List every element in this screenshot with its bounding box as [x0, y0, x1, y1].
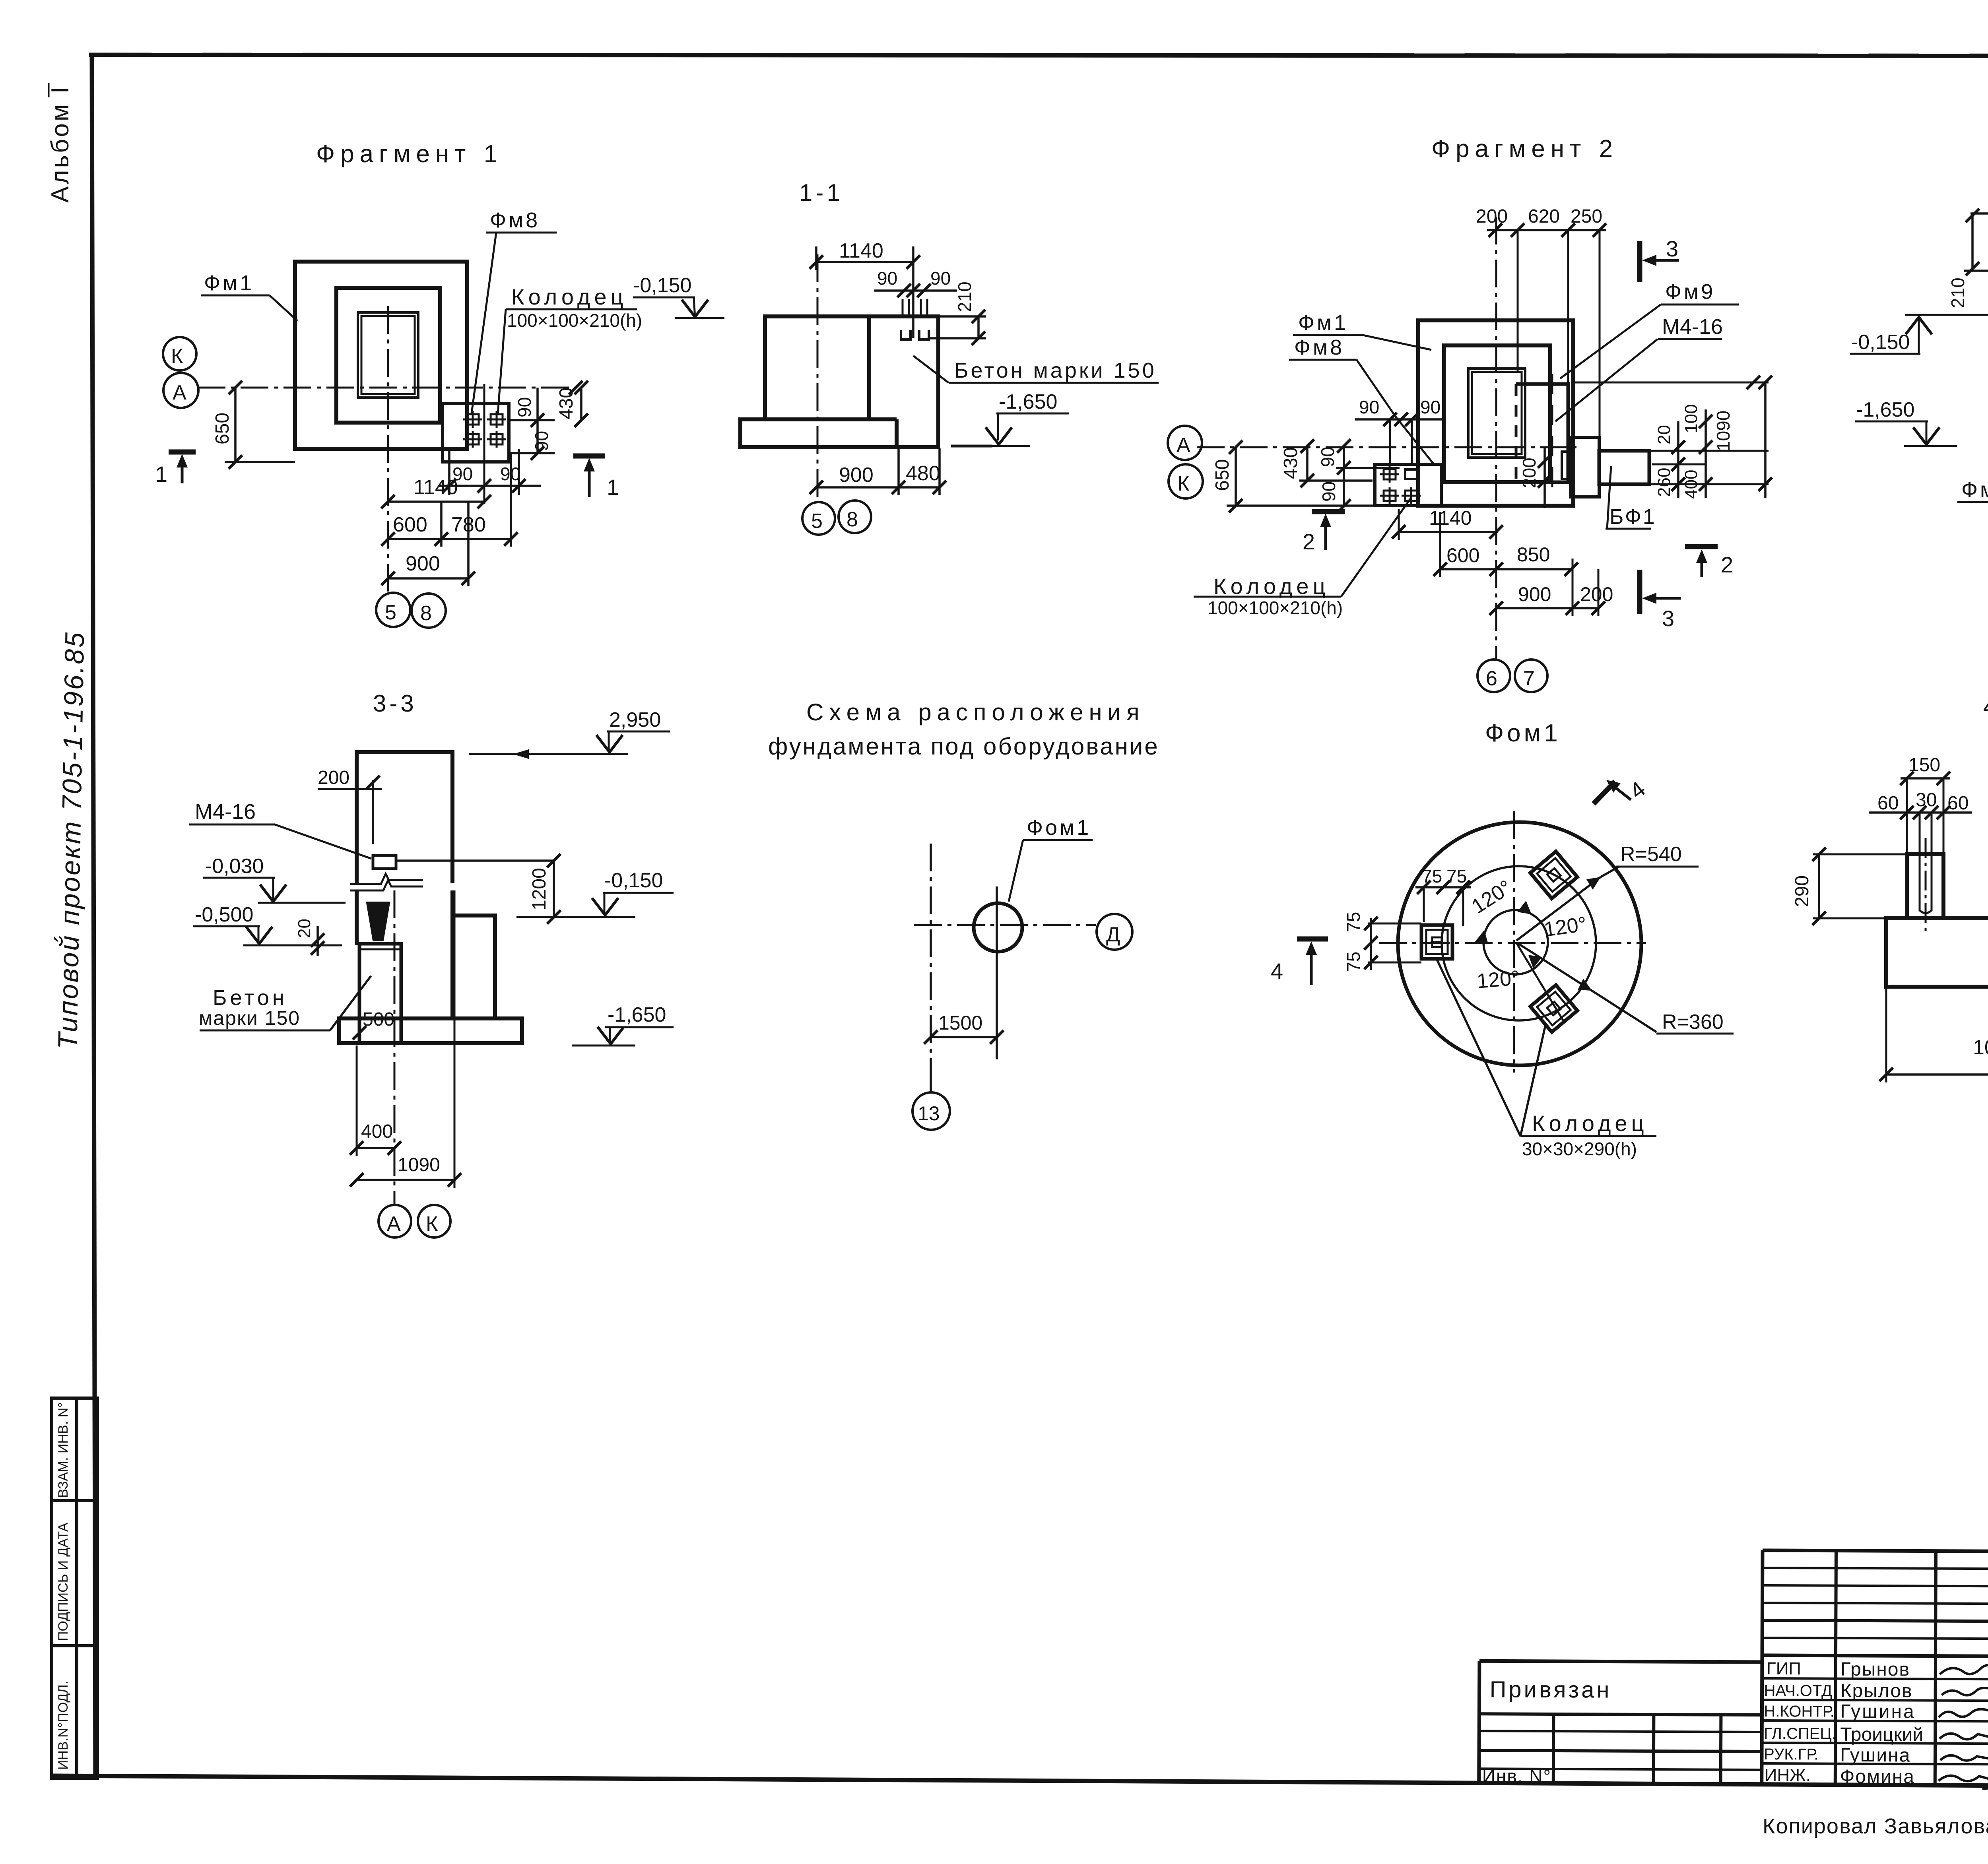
svg-text:100: 100: [1681, 404, 1701, 433]
dim 650 vertical: [234, 388, 237, 462]
scheme horizontal axis D: [914, 924, 1096, 926]
svg-text:БФ1: БФ1: [1609, 505, 1656, 529]
svg-text:90: 90: [1420, 397, 1441, 417]
svg-text:ГИП: ГИП: [1767, 1659, 1801, 1678]
concrete fill block: [359, 944, 401, 1043]
svg-text:900: 900: [839, 464, 874, 487]
svg-text:120°: 120°: [1476, 966, 1520, 993]
radius dash line to bottom pad: [1516, 943, 1563, 1021]
svg-text:Инв. N°: Инв. N°: [1482, 1765, 1551, 1786]
dim 600 850 (frag2): [1440, 568, 1571, 570]
small tab: [1562, 452, 1571, 479]
dim 400 (3-3): [357, 1147, 394, 1149]
svg-text:Д: Д: [1106, 923, 1120, 946]
svg-text:100×100×210(h): 100×100×210(h): [1208, 597, 1343, 618]
dim 100/400 vline: [1705, 409, 1707, 498]
svg-text:20: 20: [295, 919, 314, 938]
svg-text:Привязан: Привязан: [1490, 1676, 1612, 1703]
frame left border: [92, 53, 95, 1777]
svg-text:Н.КОНТР.: Н.КОНТР.: [1764, 1703, 1835, 1720]
svg-text:3-3: 3-3: [373, 690, 417, 717]
slot 1 lines: [1920, 854, 1932, 913]
svg-text:1: 1: [607, 475, 619, 500]
anchor funnel: [367, 903, 389, 940]
section mark 4 top (diagonal): [1594, 782, 1615, 804]
svg-text:К: К: [1177, 472, 1189, 495]
dim 200 internal: [1543, 447, 1546, 508]
dim 90 (frag2 upper): [1343, 446, 1345, 506]
anchor plate Fm8: [443, 403, 509, 462]
fragment 2 left: dim 90 90 above plate: [1355, 418, 1443, 421]
svg-text:Крылов: Крылов: [1840, 1680, 1913, 1702]
svg-text:90: 90: [531, 431, 552, 451]
dim 210 (2-2): [1971, 213, 1974, 271]
pier axis vertical: [817, 254, 819, 502]
svg-text:ВЗАМ. ИНВ. N°: ВЗАМ. ИНВ. N°: [56, 1402, 71, 1498]
M4-16 embedded plate: [373, 855, 396, 869]
svg-text:4-4: 4-4: [1983, 693, 1988, 720]
bolt axis vertical: [483, 384, 485, 504]
svg-text:850: 850: [1517, 543, 1550, 566]
svg-text:500: 500: [363, 1009, 394, 1030]
svg-text:1500: 1500: [938, 1012, 982, 1034]
extension line right tick: [1599, 230, 1601, 437]
leaders to pads: [1520, 1023, 1546, 1136]
svg-text:А: А: [1176, 434, 1190, 457]
scheme vertical line through foundation: [996, 886, 998, 1059]
bolt 1: [463, 411, 482, 428]
footing right edge: [895, 419, 899, 447]
axis circle 13: [912, 1092, 950, 1130]
svg-text:8: 8: [420, 602, 432, 625]
inner circle: [1442, 866, 1596, 1020]
radius line to top-right pad: [1516, 877, 1601, 941]
bolt axis 1: [1925, 838, 1927, 931]
horizontal axis row A: [198, 387, 576, 389]
bolt 4: [487, 431, 506, 448]
bolt 1: [1380, 466, 1399, 483]
signature table outline: [1762, 1550, 1988, 1788]
column below break: left edge: [355, 890, 359, 945]
svg-text:М4-16: М4-16: [195, 800, 256, 824]
svg-text:90: 90: [1318, 481, 1339, 502]
svg-text:5: 5: [811, 510, 823, 533]
svg-text:75: 75: [1446, 866, 1467, 886]
dim 600 / 780: [388, 538, 511, 540]
dim 90 90 (2-2): [1971, 212, 1988, 215]
foundation body outline: [740, 316, 938, 447]
footing top edge: [765, 417, 897, 421]
axis circle A: [163, 373, 198, 408]
svg-text:8: 8: [846, 508, 858, 531]
section mark 1 left: [169, 450, 196, 455]
svg-text:200: 200: [1580, 583, 1613, 605]
svg-text:290: 290: [1792, 875, 1813, 907]
Fm9 outline rectangle: [1516, 384, 1568, 482]
svg-text:РУК.ГР.: РУК.ГР.: [1764, 1746, 1819, 1763]
vertical axis of pier: [387, 306, 389, 596]
svg-text:430: 430: [556, 388, 577, 419]
svg-text:650: 650: [212, 413, 233, 444]
section mark 4 left-bottom: [1297, 937, 1328, 942]
dim 1200: [553, 861, 555, 917]
svg-text:Бетон: Бетон: [213, 986, 287, 1010]
dim 20/260 vline: [1677, 421, 1679, 498]
privyazan verticals: [1552, 1714, 1555, 1784]
section mark 2 bottom right: [1685, 544, 1718, 549]
dim 650 (frag2): [1235, 447, 1237, 506]
svg-text:Схема расположения: Схема расположения: [806, 699, 1145, 725]
svg-text:90: 90: [514, 397, 535, 417]
svg-text:Фм8: Фм8: [1961, 478, 1988, 502]
angle circle 120: [1483, 910, 1548, 974]
svg-text:60: 60: [1947, 793, 1969, 814]
axis circle 6: [1477, 659, 1510, 692]
svg-text:7: 7: [1523, 667, 1535, 690]
bolt 3: [1380, 487, 1399, 504]
svg-text:Фомина: Фомина: [1840, 1766, 1915, 1788]
signature rows: [1762, 1678, 1988, 1680]
horizontal centerline: [1379, 942, 1646, 944]
dim 430 (frag2): [1306, 446, 1309, 481]
privyazan big cell bottom: [1479, 1714, 1762, 1715]
svg-text:1: 1: [155, 462, 167, 487]
svg-text:260: 260: [1654, 468, 1674, 497]
svg-text:2,950: 2,950: [609, 708, 661, 731]
svg-text:60: 60: [1877, 793, 1899, 814]
svg-text:марки 150: марки 150: [199, 1007, 300, 1029]
bolt 4: [1402, 487, 1421, 504]
svg-text:75: 75: [1422, 866, 1442, 886]
anchor slot 1: [901, 299, 911, 339]
svg-text:1140: 1140: [1429, 507, 1472, 529]
top dims 200 620 250: [1487, 229, 1606, 231]
svg-text:Гушина: Гушина: [1840, 1701, 1916, 1722]
section mark 1 right: [573, 454, 605, 459]
svg-text:фундамента под оборудование: фундамента под оборудование: [768, 733, 1159, 760]
dim 90 vertical right upper: [536, 388, 539, 453]
svg-text:900: 900: [1518, 583, 1551, 605]
svg-text:30×30×290(h): 30×30×290(h): [1522, 1139, 1637, 1159]
left pad outer: [1421, 925, 1452, 959]
table verticals: [1835, 1551, 1836, 1785]
section mark 3 top: [1637, 241, 1642, 282]
svg-text:НАЧ.ОТД: НАЧ.ОТД: [1764, 1682, 1833, 1700]
svg-text:200: 200: [318, 767, 349, 788]
svg-text:Фрагмент 2: Фрагмент 2: [1431, 135, 1618, 163]
svg-text:Фом1: Фом1: [1485, 720, 1561, 747]
pit double rectangle: [1468, 369, 1525, 458]
svg-text:Троицкий: Троицкий: [1840, 1724, 1923, 1746]
bolt axis vertical: [394, 890, 396, 1205]
svg-text:Фм8: Фм8: [1294, 336, 1344, 359]
svg-text:-0,030: -0,030: [205, 855, 264, 878]
svg-text:90: 90: [930, 268, 951, 289]
svg-text:А: А: [173, 381, 186, 404]
axis circle K (frag2): [1169, 464, 1203, 498]
pit double rectangle: [358, 312, 418, 398]
M4-16 bolt axis dashed: [1551, 374, 1553, 495]
dim 1500: [931, 1036, 997, 1038]
svg-text:75: 75: [1343, 952, 1364, 972]
svg-text:А: А: [387, 1212, 401, 1236]
bolt 2 (M4-16 open): [1405, 469, 1417, 479]
dim 1090 (3-3): [357, 1179, 454, 1181]
svg-text:Альбом I̅: Альбом I̅: [47, 83, 74, 203]
right step block: [452, 916, 495, 1018]
svg-text:210: 210: [1947, 277, 1968, 308]
axis circle 7: [1515, 659, 1547, 692]
svg-text:-0,500: -0,500: [195, 903, 253, 926]
svg-text:90: 90: [1317, 447, 1338, 467]
svg-text:1140: 1140: [839, 239, 883, 262]
svg-text:К: К: [426, 1212, 438, 1236]
svg-text:Фм8: Фм8: [490, 208, 540, 232]
svg-text:Фм9: Фм9: [1665, 280, 1715, 304]
svg-text:3: 3: [1666, 236, 1678, 261]
svg-text:Колодец: Колодец: [1532, 1111, 1648, 1136]
svg-text:Гушина: Гушина: [1840, 1745, 1911, 1766]
bolt 3: [463, 431, 482, 448]
svg-text:Колодец: Колодец: [1213, 574, 1330, 599]
left margin stamp box: [52, 1398, 97, 1778]
svg-text:2: 2: [1721, 552, 1733, 577]
svg-text:1-1: 1-1: [799, 179, 843, 206]
upper grid rows: [1763, 1568, 1988, 1569]
break symbol: [350, 874, 423, 884]
svg-text:М4-16: М4-16: [1662, 315, 1723, 339]
left pad inner: [1426, 930, 1448, 954]
svg-text:650: 650: [1212, 459, 1233, 491]
main vertical axis: [1495, 217, 1497, 659]
vertical centerline: [1513, 811, 1515, 1073]
svg-text:480: 480: [906, 462, 940, 485]
bolt 2: [487, 411, 506, 428]
svg-text:2: 2: [1303, 529, 1315, 554]
dim 1140: [388, 500, 484, 503]
svg-text:Фм1: Фм1: [1298, 311, 1348, 335]
svg-text:ИНЖ.: ИНЖ.: [1765, 1765, 1811, 1785]
pier right internal edge: [867, 316, 871, 419]
pedestal 1: [1907, 854, 1943, 918]
svg-text:75: 75: [1343, 912, 1364, 932]
svg-text:-1,650: -1,650: [999, 390, 1057, 413]
frame top border: [89, 55, 1988, 56]
bottom pad: [1530, 985, 1577, 1032]
axis circle K (3-3): [418, 1205, 450, 1237]
leader Fm8 to plate: [1396, 417, 1435, 465]
svg-text:1200: 1200: [529, 868, 550, 910]
radius line to bottom pad area: [1517, 943, 1656, 1032]
svg-text:-0,150: -0,150: [1851, 331, 1910, 354]
horizontal axis row A/K: [1197, 446, 1576, 448]
footing 3-3: [339, 1018, 522, 1043]
privyazan row lines: [1479, 1731, 1762, 1732]
dim 1140 (frag2): [1399, 531, 1498, 533]
axis circle A (3-3): [379, 1205, 411, 1237]
extension line 620 tick: [1517, 230, 1519, 372]
svg-text:Фом1: Фом1: [1027, 816, 1091, 840]
svg-text:-1,650: -1,650: [1856, 398, 1914, 421]
svg-text:600: 600: [1446, 544, 1479, 566]
svg-text:250: 250: [1571, 206, 1602, 227]
svg-text:4: 4: [1271, 958, 1283, 983]
svg-text:-0,150: -0,150: [633, 274, 691, 297]
svg-text:Грынов: Грынов: [1840, 1659, 1910, 1680]
svg-text:6: 6: [1486, 667, 1497, 690]
svg-text:13: 13: [918, 1102, 940, 1125]
axis circle 8: [839, 500, 871, 533]
svg-text:430: 430: [1280, 447, 1301, 479]
svg-text:R=540: R=540: [1620, 843, 1682, 866]
column right edge down: [450, 890, 454, 1018]
svg-text:90: 90: [877, 268, 897, 289]
foundation outer square: [295, 262, 467, 449]
column outline upper: [357, 752, 452, 883]
svg-text:1090: 1090: [1713, 411, 1734, 451]
top-right pad: [1530, 852, 1577, 898]
axis circle K: [163, 337, 196, 370]
svg-text:Бетон марки 150: Бетон марки 150: [954, 359, 1157, 382]
svg-text:200: 200: [1476, 206, 1508, 227]
dim 900 200 (frag2): [1496, 607, 1598, 609]
svg-text:ИНВ.N°ПОДЛ.: ИНВ.N°ПОДЛ.: [56, 1681, 71, 1770]
section mark 3 bottom: [1637, 570, 1642, 614]
dim 1140 top: [816, 261, 913, 263]
svg-text:20: 20: [1654, 425, 1674, 444]
body 4-4: [1886, 918, 1988, 987]
foundation inner rectangle: [336, 288, 440, 423]
section mark 2 (frag2 left): [1312, 509, 1345, 514]
svg-text:-0,150: -0,150: [604, 869, 663, 892]
signatures squiggles: [1940, 1665, 1988, 1674]
scheme vertical axis 13: [930, 844, 932, 1059]
svg-text:1090: 1090: [398, 1154, 440, 1175]
svg-text:620: 620: [1528, 206, 1560, 227]
ext line 1200 top: [396, 859, 554, 862]
svg-text:-1,650: -1,650: [608, 1003, 666, 1026]
svg-text:Колодец: Колодец: [511, 284, 627, 309]
svg-text:400: 400: [1681, 470, 1701, 499]
svg-text:К: К: [171, 345, 183, 368]
dim 210 right: [977, 316, 980, 338]
foundation outer rectangle: [1418, 320, 1573, 506]
extension line 250 tick: [1567, 230, 1569, 384]
dim 90 90 top: [874, 289, 957, 292]
body top edge + level line: [1905, 314, 1988, 316]
svg-text:200: 200: [1519, 458, 1540, 488]
axis circle 5: [802, 502, 835, 535]
foundation circle Fom1: [974, 903, 1022, 952]
axis circle 8: [412, 594, 446, 628]
axis circle 5: [376, 593, 410, 627]
svg-text:210: 210: [954, 281, 975, 312]
outer circle: [1398, 822, 1641, 1065]
axis circle A (frag2): [1168, 426, 1202, 460]
anchor plate left: [1375, 464, 1441, 506]
svg-text:Фрагмент 1: Фрагмент 1: [316, 140, 503, 168]
svg-text:1140: 1140: [414, 476, 458, 499]
dim 430 vertical: [580, 388, 582, 420]
dim 900: [388, 577, 468, 580]
cap rectangle at right: [1571, 437, 1599, 497]
dim 900 / 480 bottom: [816, 486, 940, 489]
svg-text:Фм1: Фм1: [204, 271, 254, 295]
dim 1090 vline: [1764, 381, 1767, 498]
ground line right: [951, 445, 992, 448]
right side dims of frag2: ext lines: [1574, 382, 1769, 384]
dim 20 (3-3): [316, 926, 319, 956]
foundation inner rectangle: [1444, 345, 1550, 482]
frame bottom border: [52, 1776, 1988, 1788]
svg-text:Копировал Завьялова: Копировал Завьялова: [1763, 1814, 1988, 1838]
axis circle D: [1097, 914, 1132, 950]
svg-text:90: 90: [1359, 397, 1379, 417]
dim 90 90 below plate: [439, 485, 541, 487]
svg-text:100×100×210(h): 100×100×210(h): [507, 310, 642, 331]
left pad bolt: [1432, 937, 1442, 947]
svg-text:1080: 1080: [1973, 1036, 1988, 1059]
anchor slot 2: [919, 299, 929, 339]
svg-text:ПОДПИСЬ И ДАТА: ПОДПИСЬ И ДАТА: [56, 1523, 71, 1641]
beam BF1: [1599, 451, 1649, 484]
svg-text:400: 400: [361, 1121, 393, 1142]
svg-text:900: 900: [406, 552, 440, 575]
svg-text:3: 3: [1662, 606, 1674, 631]
svg-text:5: 5: [385, 601, 396, 624]
svg-text:600: 600: [393, 513, 427, 536]
privyazan box outline: [1479, 1661, 1762, 1785]
svg-text:ГЛ.СПЕЦ.: ГЛ.СПЕЦ.: [1764, 1725, 1836, 1743]
svg-text:R=360: R=360: [1662, 1011, 1724, 1034]
